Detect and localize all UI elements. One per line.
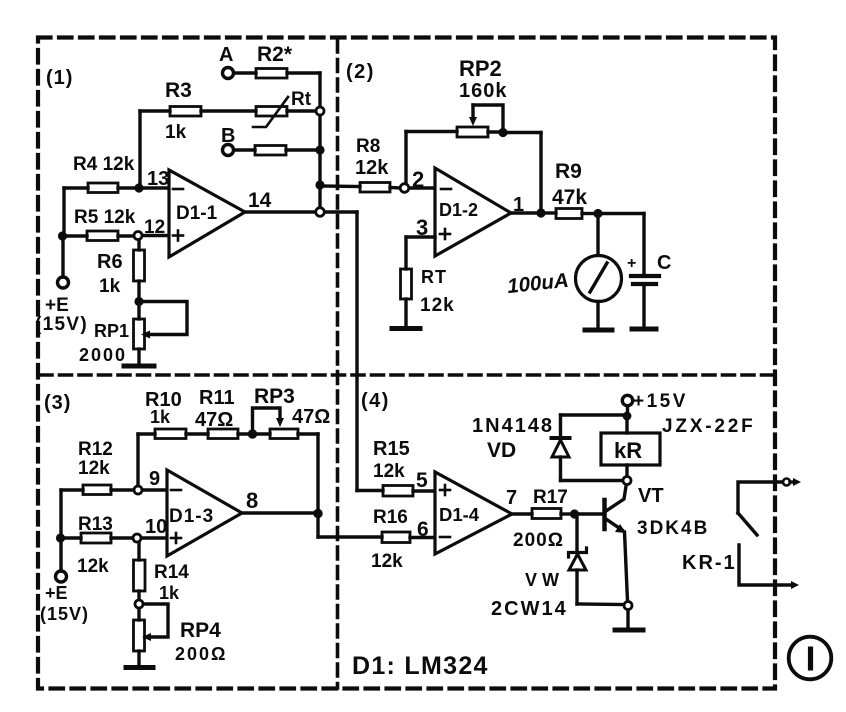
svg-text:1N4148: 1N4148: [472, 415, 554, 437]
svg-text:D1: LM324: D1: LM324: [352, 652, 489, 680]
svg-text:1k: 1k: [159, 583, 180, 603]
svg-text:R15: R15: [373, 438, 410, 460]
svg-text:(3): (3): [44, 392, 71, 414]
svg-text:VT: VT: [638, 485, 664, 507]
svg-text:JZX-22F: JZX-22F: [662, 416, 756, 437]
svg-text:RP3: RP3: [254, 385, 295, 408]
svg-text:R2*: R2*: [257, 43, 293, 66]
svg-text:(15V): (15V): [35, 314, 88, 335]
svg-text:R3: R3: [165, 79, 192, 102]
svg-text:D1-1: D1-1: [176, 203, 218, 224]
svg-text:D1-3: D1-3: [169, 506, 214, 527]
svg-text:R9: R9: [555, 160, 582, 183]
svg-text:R5 12k: R5 12k: [74, 207, 136, 228]
svg-text:9: 9: [149, 468, 160, 490]
svg-text:2000: 2000: [79, 345, 127, 365]
svg-text:B: B: [221, 125, 235, 147]
svg-text:R14: R14: [154, 562, 189, 583]
svg-text:12k: 12k: [77, 556, 109, 577]
svg-text:6: 6: [417, 518, 429, 541]
svg-text:R11: R11: [199, 387, 235, 409]
svg-text:10: 10: [145, 516, 167, 538]
svg-text:R12: R12: [78, 439, 113, 460]
svg-text:R6: R6: [97, 251, 123, 273]
svg-text:+15V: +15V: [633, 391, 688, 412]
svg-text:D1-4: D1-4: [439, 504, 480, 525]
svg-text:200Ω: 200Ω: [175, 644, 227, 664]
svg-text:8: 8: [246, 488, 258, 513]
svg-text:kR: kR: [614, 438, 642, 463]
svg-text:RP1: RP1: [94, 321, 129, 341]
svg-text:+E: +E: [45, 295, 69, 316]
svg-text:47Ω: 47Ω: [292, 406, 330, 428]
svg-text:R17: R17: [533, 487, 568, 508]
svg-text:5: 5: [416, 469, 428, 492]
svg-text:14: 14: [248, 189, 272, 212]
svg-text:12k: 12k: [355, 157, 389, 179]
svg-text:3DK4B: 3DK4B: [637, 518, 709, 539]
svg-text:(1): (1): [46, 67, 73, 89]
svg-text:160k: 160k: [459, 80, 508, 102]
svg-text:R16: R16: [373, 507, 408, 528]
svg-text:2: 2: [412, 167, 424, 192]
svg-text:3: 3: [416, 215, 428, 240]
svg-text:47k: 47k: [552, 186, 587, 209]
svg-text:12k: 12k: [78, 458, 110, 479]
svg-text:12k: 12k: [371, 551, 403, 572]
svg-text:2CW14: 2CW14: [491, 598, 568, 620]
svg-text:(2): (2): [346, 61, 375, 83]
svg-text:R4 12k: R4 12k: [73, 154, 135, 175]
svg-text:KR-1: KR-1: [682, 552, 737, 574]
svg-text:12k: 12k: [373, 461, 405, 482]
svg-text:200Ω: 200Ω: [513, 530, 564, 551]
svg-text:+: +: [627, 255, 636, 272]
svg-text:D1-2: D1-2: [439, 200, 478, 220]
svg-text:RT: RT: [421, 267, 447, 287]
svg-text:R8: R8: [356, 136, 380, 157]
svg-text:1k: 1k: [150, 407, 171, 427]
svg-text:V W: V W: [525, 570, 559, 590]
svg-text:(4): (4): [361, 390, 390, 412]
svg-text:Rt: Rt: [291, 89, 312, 110]
svg-text:(15V): (15V): [40, 604, 89, 624]
svg-text:1k: 1k: [165, 122, 187, 143]
svg-text:VD: VD: [487, 439, 516, 462]
svg-text:+E: +E: [45, 583, 68, 603]
svg-text:7: 7: [506, 487, 517, 509]
svg-text:RP2: RP2: [459, 56, 502, 81]
svg-text:12k: 12k: [420, 295, 455, 316]
svg-text:C: C: [657, 252, 671, 274]
svg-text:12: 12: [144, 217, 165, 238]
svg-text:A: A: [219, 44, 233, 66]
svg-text:1k: 1k: [99, 276, 121, 297]
svg-text:47Ω: 47Ω: [195, 409, 233, 431]
svg-text:RP4: RP4: [180, 619, 221, 642]
svg-text:13: 13: [147, 168, 169, 190]
svg-text:R13: R13: [78, 514, 113, 535]
svg-text:1: 1: [513, 194, 524, 216]
